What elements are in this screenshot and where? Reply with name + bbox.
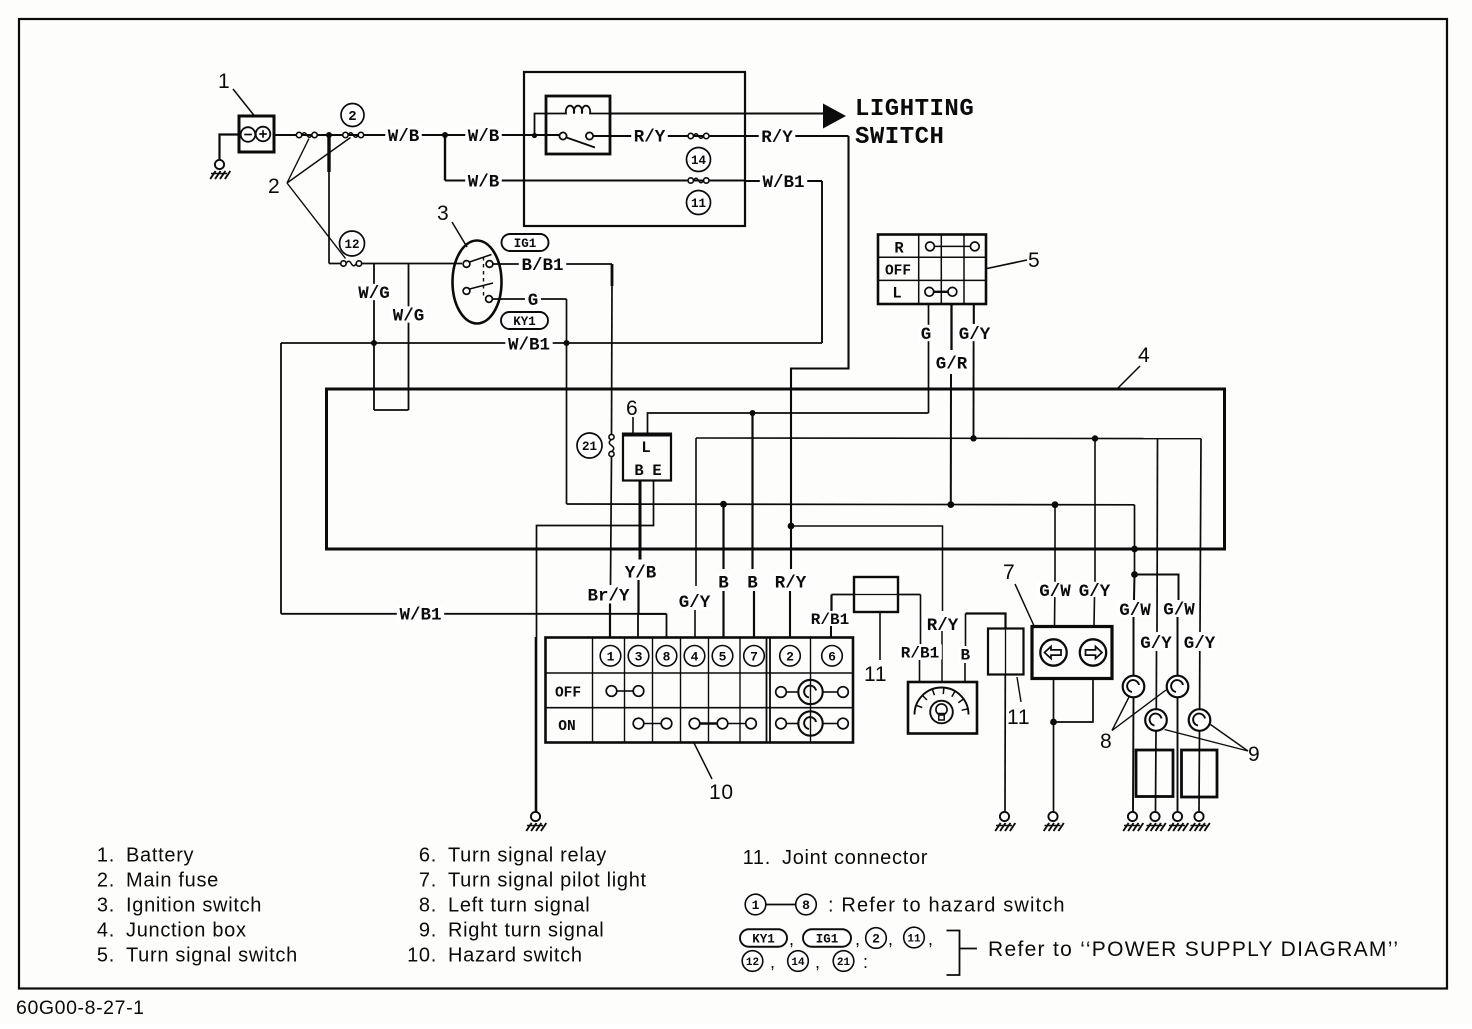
wire lamp to ground 2 (1177, 697, 1179, 811)
svg-text:W/B1: W/B1 (762, 173, 804, 193)
svg-text:2: 2 (268, 175, 280, 198)
turn signal relay 6 box (623, 434, 671, 481)
wire label W/B 1 (385, 127, 422, 143)
circled connector 12 (340, 231, 365, 256)
joint connector box upper (854, 577, 898, 612)
svg-text:7: 7 (1003, 561, 1015, 584)
wire label W/B1 lower (397, 606, 444, 622)
left turn signal lamp front left (1123, 676, 1145, 698)
switch 5 column lines (918, 235, 920, 305)
svg-text:G/Y: G/Y (959, 325, 991, 345)
junction coil to switch (532, 133, 537, 138)
svg-text:21: 21 (582, 440, 597, 454)
pill KY1 (501, 312, 548, 329)
svg-text:8: 8 (802, 898, 810, 913)
svg-text:7: 7 (750, 649, 758, 664)
svg-text:R/Y: R/Y (634, 128, 666, 148)
ground hazard left (531, 812, 540, 821)
wire R/B1 to pilot (920, 595, 922, 645)
svg-text:5: 5 (1028, 249, 1040, 272)
wire W/G right vertical (408, 264, 410, 411)
wire into hazard 6 (830, 626, 832, 638)
wire B/B1 down upper (611, 264, 614, 286)
battery item 1 box (239, 116, 274, 152)
wire ground below hazard (535, 637, 538, 812)
relay pin B down Y/B (639, 481, 642, 560)
svg-text:8: 8 (1100, 730, 1112, 753)
junction W/G on W/B1 bus (371, 340, 377, 346)
wire left vertical to lower W/B1 (280, 343, 282, 614)
wire label Br/Y (585, 586, 632, 602)
wire G/W left branch (1133, 575, 1136, 601)
wire into hazard 8 (666, 614, 668, 638)
svg-text:Ignition switch: Ignition switch (126, 895, 262, 917)
ground lamp 4 (1194, 812, 1203, 821)
switch 5 R contacts (926, 242, 935, 251)
ground B line (1000, 812, 1009, 821)
svg-text:SWITCH: SWITCH (855, 124, 944, 151)
wire connector 12 to ignition switch (362, 263, 463, 265)
relay pin L up (648, 413, 929, 434)
svg-text:3: 3 (635, 649, 643, 664)
svg-text:,: , (888, 929, 894, 949)
svg-text:Turn signal switch: Turn signal switch (126, 945, 298, 967)
wire G/Y net horizontal (696, 437, 1201, 440)
wire lamp to ground 1 (1132, 697, 1135, 811)
wire label W/B 3 (465, 172, 502, 188)
svg-text:5.: 5. (97, 945, 115, 967)
junction G/Y lamp drop (1092, 435, 1098, 441)
svg-text:Y/B: Y/B (625, 563, 657, 583)
svg-text:W/B1: W/B1 (399, 606, 441, 626)
relay coil box (546, 96, 610, 154)
wire B over to connector (966, 614, 1006, 629)
svg-text::: : (863, 952, 869, 972)
svg-text:IG1: IG1 (816, 933, 839, 947)
ignition switch 3 body (453, 241, 502, 324)
svg-text:11: 11 (864, 663, 887, 686)
hazard ON contacts 3-8 (633, 718, 644, 729)
svg-text:4: 4 (691, 649, 699, 664)
svg-text:6: 6 (626, 397, 638, 420)
wire Br/Y down (611, 457, 612, 586)
wire label G/W indicator (1037, 582, 1074, 598)
switch 5 row lines (878, 256, 986, 258)
circled connector 21 (577, 433, 602, 458)
circled connector 11 (687, 191, 711, 215)
wire W/G from fuse to ignition (329, 263, 341, 265)
svg-text:Turn signal pilot light: Turn signal pilot light (448, 870, 647, 892)
hazard switch 10 box (546, 638, 854, 743)
arrow to lighting switch (823, 104, 846, 129)
wire lamp4 to ground (1198, 731, 1201, 812)
connector 2 pair (343, 132, 348, 137)
svg-text:R/Y: R/Y (775, 573, 807, 593)
note power supply refs row 2 (742, 951, 763, 972)
wire G/Y lamp 1 lower (1155, 651, 1157, 709)
wire label R/Y outside box (759, 128, 796, 144)
switch pin G/R (950, 304, 952, 350)
svg-text:4: 4 (1138, 344, 1150, 367)
left turn signal lamp front right (1167, 676, 1189, 698)
junction G line on W/B1 bus (564, 340, 570, 346)
junction G/W tee (1131, 571, 1138, 578)
hazard OFF contacts 2-6 (776, 687, 787, 698)
wire B/B1 from ignition (493, 263, 612, 265)
note bracket (947, 931, 960, 976)
pilot meter gauge ticks (917, 705, 923, 707)
svg-text:G/Y: G/Y (1140, 634, 1172, 654)
svg-text:LIGHTING: LIGHTING (855, 96, 974, 123)
svg-text:12: 12 (344, 238, 359, 252)
wire label W/B1 on bus (505, 336, 552, 352)
svg-text:G: G (528, 291, 539, 311)
svg-text:6: 6 (828, 649, 836, 664)
wire label W/G 2 (390, 306, 427, 322)
lighting circuit box (524, 72, 745, 226)
wire label W/B 2 (465, 127, 502, 143)
svg-text:11: 11 (691, 197, 706, 211)
pilot arrow left (1040, 639, 1066, 665)
right turn signal lamp 2 (1189, 709, 1211, 731)
svg-text:6.: 6. (419, 845, 437, 867)
junction main fuse vertical (326, 132, 332, 138)
svg-text:1.: 1. (97, 845, 115, 867)
svg-text:,: , (789, 929, 795, 949)
wire switch G pin (928, 341, 930, 413)
svg-text:Turn signal relay: Turn signal relay (448, 845, 607, 867)
wire R/Y to pilot (791, 526, 943, 611)
connector pair near battery (296, 132, 301, 137)
wire label R/B1 hazard (808, 611, 852, 626)
svg-text:3: 3 (437, 202, 449, 225)
pilot arrow right (1080, 639, 1106, 665)
ignition blade upper (470, 255, 492, 263)
wire G/Y hazard 4 drop (695, 438, 697, 586)
svg-text:12: 12 (746, 957, 759, 969)
pilot meter box (908, 682, 977, 734)
junction net A indicator left (1052, 501, 1059, 508)
wire G vertical from ignition (566, 299, 568, 504)
svg-text:G/Y: G/Y (1184, 634, 1216, 654)
hazard column lines (592, 638, 594, 743)
wire lower W/B1 horizontal (281, 613, 667, 615)
svg-text:1: 1 (218, 70, 230, 93)
svg-text:11.: 11. (743, 847, 771, 869)
relay switch contact left (559, 132, 566, 139)
wire B to ground (1004, 675, 1006, 812)
note power supply refs row 1 (740, 929, 787, 947)
svg-text:Joint connector: Joint connector (782, 847, 928, 869)
svg-text:R/B1: R/B1 (901, 644, 939, 662)
ground battery (215, 160, 224, 169)
wire into hazard 3 (637, 614, 639, 638)
relay switch blade (567, 138, 596, 148)
svg-text:11: 11 (907, 933, 921, 945)
joint connector box lower (988, 629, 1024, 675)
svg-text:2: 2 (348, 109, 356, 125)
junction net A hazard 5 (720, 501, 727, 508)
wire R/Y pilot lower (941, 631, 943, 682)
svg-text:KY1: KY1 (752, 933, 775, 947)
svg-text:Right turn signal: Right turn signal (448, 920, 604, 942)
svg-text:,: , (770, 952, 776, 972)
hazard ON contacts 2-6 (776, 718, 787, 729)
wire battery to ground (220, 135, 240, 160)
battery terminal positive (256, 127, 271, 142)
svg-text:60G00-8-27-1: 60G00-8-27-1 (16, 997, 145, 1019)
rear lamp housing right (1182, 750, 1218, 797)
wire label G switch (918, 325, 934, 341)
hazard OFF pilot bulb (798, 680, 822, 704)
wire label G/Y hazard (676, 593, 713, 609)
svg-text:1: 1 (752, 898, 760, 913)
svg-text:ON: ON (558, 719, 575, 735)
wire G/W indicator lower (1054, 597, 1056, 627)
wire label G/W left (1117, 601, 1154, 617)
turn signal pilot light 7 box (1032, 627, 1112, 679)
svg-text:W/G: W/G (358, 284, 390, 304)
svg-text:7.: 7. (419, 870, 437, 892)
svg-text:W/G: W/G (393, 306, 425, 326)
wire R/B1 through connector (832, 594, 855, 596)
svg-text:G/Y: G/Y (679, 593, 711, 613)
hazard terminal numbers (600, 646, 621, 667)
wire Br/Y into hazard 1 (609, 604, 611, 638)
wire G/Y rear lamp 2 (1200, 439, 1201, 632)
ground indicator (1048, 812, 1057, 821)
turn signal switch 5 box (878, 235, 986, 305)
svg-text:21: 21 (837, 957, 851, 969)
note hazard refs (745, 894, 766, 915)
wire G/Y indicator lower (1093, 597, 1096, 627)
wire R/Y into hazard 2 (789, 591, 791, 638)
wire G from ignition (493, 298, 567, 300)
connector pair 12 (341, 261, 346, 266)
wire W/G U join (374, 409, 409, 411)
svg-text:,: , (928, 929, 934, 949)
svg-text:OFF: OFF (885, 264, 911, 280)
wire into hazard 4 (694, 610, 696, 638)
svg-text:B: B (634, 462, 643, 480)
wire label G ignition (525, 291, 541, 307)
relay coil (535, 106, 611, 136)
svg-text:2.: 2. (97, 870, 115, 892)
svg-text:Main fuse: Main fuse (126, 870, 219, 892)
svg-text:14: 14 (691, 154, 707, 168)
wire label B hazard 5 (716, 573, 731, 589)
wire into hazard 5 (722, 591, 724, 638)
wire label G/Y indicator (1076, 582, 1113, 598)
hazard section divider (766, 638, 768, 743)
wire label B/B1 (519, 256, 566, 272)
svg-text:Junction box: Junction box (126, 920, 247, 942)
wire B through connector (1005, 629, 1007, 675)
svg-text:2: 2 (872, 932, 880, 947)
svg-text:8.: 8. (419, 895, 437, 917)
ignition contact 3 (463, 288, 470, 295)
svg-text:Refer to ‘‘POWER SUPPLY DIAGRA: Refer to ‘‘POWER SUPPLY DIAGRAM’’ (988, 938, 1399, 961)
wire label W/B1 right of box (760, 173, 807, 189)
wire indicator to ground (1053, 722, 1055, 812)
junction G/Y switch (970, 435, 976, 441)
pill IG1 (502, 234, 549, 251)
svg-text:,: , (815, 952, 821, 972)
wire G/W indicator feed (1054, 505, 1056, 584)
junction box 4 (327, 389, 1225, 549)
wire lamp3 to ground (1155, 731, 1158, 812)
svg-text:Left turn signal: Left turn signal (448, 895, 590, 917)
svg-text:2: 2 (786, 649, 794, 664)
wire G/W left to lamp (1133, 617, 1135, 676)
svg-text:B/B1: B/B1 (521, 256, 563, 276)
battery terminal negative (241, 127, 256, 142)
pilot meter bulb (930, 701, 953, 724)
joint connector pin 11 (879, 612, 881, 660)
svg-text:IG1: IG1 (514, 237, 537, 251)
junction relay L hazard 7 (750, 410, 756, 416)
svg-text:3.: 3. (97, 895, 115, 917)
svg-text:B: B (960, 646, 970, 664)
wire indicator commons (1054, 679, 1094, 723)
svg-text:G/W: G/W (1163, 600, 1195, 620)
ignition contact 4 (486, 296, 493, 303)
wire G/W right branch (1135, 575, 1179, 601)
ignition blade lower (470, 283, 494, 289)
wire into hazard 7 (753, 591, 755, 638)
svg-text:5: 5 (719, 649, 727, 664)
svg-text:Br/Y: Br/Y (587, 586, 630, 606)
ground lamp 1 (1128, 812, 1137, 821)
wire B hazard 7 (751, 413, 753, 569)
connector 21 inline (609, 434, 614, 439)
right turn signal lamp 1 (1145, 709, 1167, 731)
wire W/G left vertical (373, 264, 375, 411)
wire G/Y lamp 2 lower (1199, 651, 1201, 709)
wire label R/Y inside box (631, 128, 668, 144)
wire R/Y down (791, 136, 849, 569)
wire label G/Y lamp 1 (1138, 634, 1175, 650)
wire R/B1 to hazard 6 (830, 595, 832, 612)
svg-text:G: G (921, 325, 932, 345)
svg-text:14: 14 (791, 957, 805, 969)
svg-text:W/B: W/B (388, 127, 420, 147)
ground lamp 2 (1173, 812, 1182, 821)
wire label G/Y lamp 2 (1181, 634, 1218, 650)
junction R/Y pilot branch (788, 523, 795, 530)
connector pair W/B1 row (688, 178, 693, 183)
ignition contact 2 (486, 261, 493, 268)
svg-text:9.: 9. (419, 920, 437, 942)
svg-text:4.: 4. (97, 920, 115, 942)
junction W/B branch (442, 132, 448, 138)
wire Y/B into hazard (637, 580, 639, 614)
svg-text:9: 9 (1248, 743, 1260, 766)
relay switch contact right (586, 132, 593, 139)
wire label B hazard 7 (745, 573, 760, 589)
wire G/Y indicator feed (1094, 439, 1096, 585)
svg-text:10: 10 (709, 781, 734, 804)
wire G/Y rear lamp 1 (1156, 439, 1159, 632)
svg-text:B: B (718, 573, 729, 593)
connector pair R/Y row (688, 133, 693, 138)
hazard ON pilot bulb (798, 711, 822, 735)
wire coil to lighting switch arrow (610, 113, 823, 115)
svg-text:G/R: G/R (936, 354, 968, 374)
svg-text:W/B1: W/B1 (508, 336, 550, 356)
wire W/B1 bus horizontal (281, 342, 822, 344)
wire label R/B1 pilot (898, 644, 942, 659)
svg-text:R/Y: R/Y (761, 128, 793, 148)
svg-text:KY1: KY1 (513, 315, 536, 329)
junction indicator common (1050, 719, 1057, 726)
junction net A G/R (947, 501, 954, 508)
wire R/B1 pilot lower (919, 660, 921, 682)
wire net A corner down (1134, 505, 1136, 575)
wire G/W right to lamp (1177, 617, 1179, 676)
hazard OFF contacts 1-3 (606, 686, 617, 697)
wire battery positive to lighting box (274, 134, 563, 136)
pilot meter gauge arc (915, 688, 969, 715)
wire Y/B split to 8 (639, 613, 667, 615)
wire label R/Y above hazard (772, 573, 809, 589)
circled connector 2 (341, 104, 364, 127)
svg-text:: Refer to hazard switch: : Refer to hazard switch (828, 895, 1066, 917)
svg-text:,: , (855, 929, 861, 949)
ignition coupling dashed (483, 257, 485, 296)
wire label R/Y pilot (924, 616, 961, 632)
wire W/B second row (445, 180, 745, 182)
svg-text:G/W: G/W (1119, 601, 1151, 621)
svg-text:OFF: OFF (555, 686, 581, 702)
svg-text:11: 11 (1007, 706, 1030, 729)
wire label G/Y switch (956, 325, 993, 341)
wire W/B1 out of box (745, 180, 822, 182)
wire label Y/B (622, 563, 659, 579)
junction dot bus exit right (1131, 546, 1138, 553)
svg-text:1: 1 (607, 649, 615, 664)
rear lamp housing left (1136, 750, 1173, 797)
switch 5 L contacts (925, 287, 934, 296)
ignition contact 1 (463, 261, 470, 268)
wire label G/R (933, 354, 970, 370)
svg-text:W/B: W/B (468, 172, 500, 192)
svg-text:L: L (892, 285, 901, 303)
svg-text:B: B (747, 573, 758, 593)
switch pin G/Y (973, 304, 975, 324)
svg-text:8: 8 (663, 649, 671, 664)
wire label W/G 1 (356, 284, 393, 300)
wire relay to R/Y out (593, 135, 849, 137)
hazard ON contacts 4-5-7 (689, 718, 700, 729)
wire label G/W right (1161, 600, 1198, 616)
svg-text:10.: 10. (407, 945, 437, 967)
wire net A horizontal (567, 503, 1135, 506)
svg-text:Battery: Battery (126, 845, 194, 867)
pilot B pin (964, 663, 966, 682)
relay pin E to ground (537, 481, 654, 638)
ground lamp 3 (1150, 812, 1159, 821)
svg-text:E: E (652, 462, 661, 480)
hazard row lines (546, 672, 854, 674)
wire W/B1 down to bus (821, 181, 823, 343)
svg-text:W/B: W/B (468, 127, 500, 147)
circled connector 14 (687, 148, 711, 172)
svg-text:L: L (641, 439, 650, 457)
wire label B pilot (958, 646, 972, 661)
svg-text:Hazard switch: Hazard switch (448, 945, 583, 967)
wire B hazard 5 (722, 504, 724, 569)
